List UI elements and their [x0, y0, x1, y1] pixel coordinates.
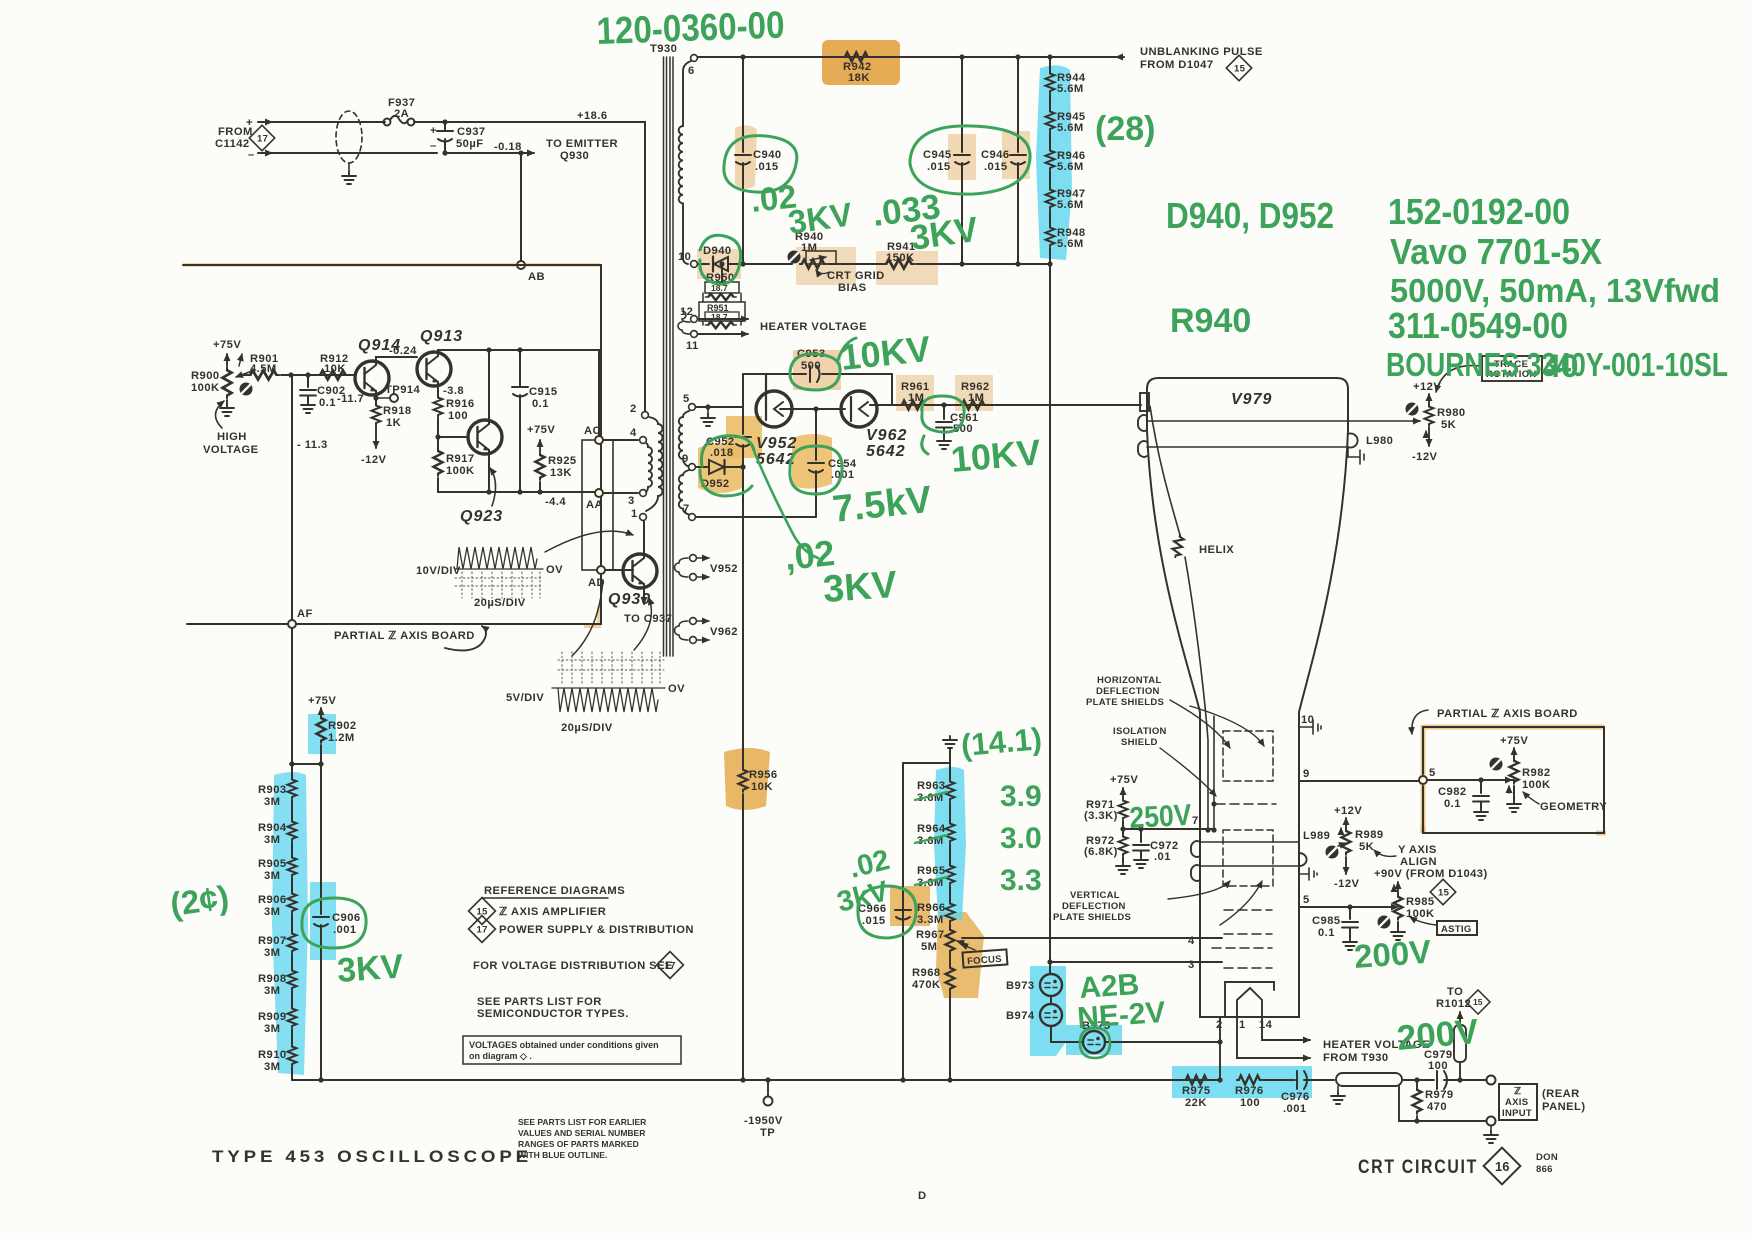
wire AF down to divider	[291, 628, 293, 764]
svg-text:200V: 200V	[1395, 1012, 1480, 1058]
svg-text:5.6M: 5.6M	[1057, 238, 1084, 250]
wire V962 plate to CRT	[870, 404, 894, 406]
svg-text:5.6M: 5.6M	[1057, 161, 1084, 173]
wire Q923 emitter	[488, 450, 490, 492]
wire Q930 emitter arrow TO C937	[643, 585, 645, 604]
ref diamond 17 power supply	[469, 916, 496, 943]
svg-text:TO C937: TO C937	[624, 613, 672, 625]
capacitor C906	[313, 917, 329, 927]
node AB	[517, 261, 525, 269]
svg-text:1K: 1K	[386, 417, 401, 429]
svg-text:100K: 100K	[1522, 779, 1551, 791]
svg-text:18.7: 18.7	[711, 312, 728, 322]
resistor R904	[291, 800, 293, 820]
pin 3 wire	[1050, 961, 1222, 963]
wire Q923 collector	[488, 350, 490, 424]
svg-text:FOR VOLTAGE DISTRIBUTION SEE: FOR VOLTAGE DISTRIBUTION SEE	[473, 960, 673, 972]
svg-text:R985: R985	[1406, 896, 1435, 908]
inner funnel line with helix	[1150, 406, 1180, 535]
orange highlight R942	[822, 40, 900, 85]
svg-text:CRT CIRCUIT: CRT CIRCUIT	[1358, 1157, 1478, 1178]
dashed rows below	[1212, 910, 1272, 968]
resistor R975	[1184, 1076, 1209, 1085]
cyan highlight R902	[308, 714, 336, 754]
svg-text:0.1: 0.1	[1318, 927, 1335, 939]
svg-text:4: 4	[630, 427, 637, 439]
pin 4	[640, 437, 647, 444]
svg-text:Vavo 7701-5X: Vavo 7701-5X	[1390, 231, 1602, 272]
resistor R942	[843, 53, 870, 62]
unblanking bus	[698, 56, 1122, 58]
svg-text:.015: .015	[984, 161, 1008, 173]
svg-text:+18.6: +18.6	[577, 110, 608, 122]
wire to Q923 base	[438, 418, 468, 437]
svg-text:+75V: +75V	[1110, 774, 1138, 786]
bottom -1950V bus	[292, 1079, 1220, 1081]
circle around D940	[700, 235, 741, 284]
resistor R916	[434, 396, 443, 417]
twisted pair shield	[336, 111, 362, 163]
neon B975	[1051, 1026, 1082, 1042]
dashed isolation line	[1216, 803, 1276, 805]
svg-text:.015: .015	[755, 161, 779, 173]
resistor R906	[291, 878, 293, 892]
terminal box AC AA AD	[582, 440, 613, 570]
svg-text:500: 500	[801, 360, 821, 372]
svg-text:(REAR: (REAR	[1542, 1088, 1580, 1100]
circle around B975	[1080, 1028, 1110, 1058]
capacitor C976	[1297, 1071, 1307, 1089]
orange highlight C954	[792, 434, 832, 489]
orange highlight D952	[698, 443, 742, 493]
svg-text:+: +	[430, 125, 437, 137]
svg-text:BIAS: BIAS	[838, 282, 867, 294]
svg-text:3M: 3M	[264, 834, 280, 846]
svg-text:150K: 150K	[886, 252, 915, 264]
svg-text:RANGES OF PARTS MARKED: RANGES OF PARTS MARKED	[518, 1139, 639, 1149]
resistor R964	[949, 802, 951, 822]
wire pin 7	[1123, 828, 1214, 830]
fuse F937	[384, 119, 391, 126]
svg-text:5K: 5K	[1441, 419, 1456, 431]
pin 6	[691, 55, 698, 62]
node AD	[597, 566, 605, 574]
svg-text:ℤ: ℤ	[1514, 1086, 1522, 1097]
wire +18.6 to transformer pin 2	[414, 122, 645, 411]
orange highlight R962	[955, 375, 993, 411]
svg-text:V952: V952	[710, 563, 738, 575]
orange highlight D940 area	[697, 249, 741, 279]
svg-text:18K: 18K	[848, 72, 870, 84]
Z axis input box	[1499, 1084, 1537, 1120]
svg-text:R976: R976	[1235, 1085, 1264, 1097]
svg-text:17: 17	[477, 925, 488, 936]
capacitor C954	[808, 463, 824, 473]
svg-text:R903: R903	[258, 784, 287, 796]
circle around C966	[858, 886, 916, 938]
svg-text:SEMICONDUCTOR TYPES.: SEMICONDUCTOR TYPES.	[477, 1008, 629, 1020]
svg-text:R940: R940	[1170, 302, 1251, 340]
svg-text:200V: 200V	[1353, 933, 1432, 975]
orange highlight C953	[793, 350, 841, 390]
svg-text:3: 3	[1188, 959, 1195, 971]
svg-text:(6.8K): (6.8K)	[1084, 846, 1118, 858]
svg-text:470K: 470K	[912, 979, 941, 991]
box right edge	[891, 374, 893, 405]
svg-text:10: 10	[678, 251, 691, 263]
orange highlight C940 strip	[735, 125, 757, 188]
svg-text:.015: .015	[862, 915, 886, 927]
svg-text:VOLTAGE: VOLTAGE	[203, 444, 259, 456]
svg-text:HORIZONTAL: HORIZONTAL	[1097, 675, 1162, 686]
svg-text:R965: R965	[917, 865, 946, 877]
svg-text:SEE PARTS LIST FOR EARLIER: SEE PARTS LIST FOR EARLIER	[518, 1117, 646, 1127]
svg-text:R910: R910	[258, 1049, 287, 1061]
wire -4.4 bus	[438, 491, 595, 493]
svg-text:+75V: +75V	[308, 695, 336, 707]
svg-text:4: 4	[1188, 935, 1195, 947]
svg-text:C946: C946	[981, 149, 1010, 161]
svg-text:2A: 2A	[394, 108, 409, 120]
svg-text:.015: .015	[927, 161, 951, 173]
pin 2	[642, 412, 649, 419]
partial z axis board outline	[1423, 727, 1604, 833]
svg-text:-12V: -12V	[361, 454, 387, 466]
svg-text:-12V: -12V	[1412, 451, 1438, 463]
circle around C954	[790, 446, 842, 494]
deflection plate lower with L980	[1138, 441, 1147, 457]
capacitor C966	[895, 910, 911, 920]
svg-text:.001: .001	[1283, 1103, 1307, 1115]
svg-text:ALIGN: ALIGN	[1400, 856, 1437, 868]
svg-text:5M: 5M	[921, 941, 937, 953]
arrow -12V	[375, 426, 377, 448]
svg-text:DON: DON	[1536, 1152, 1558, 1163]
svg-text:3M: 3M	[264, 870, 280, 882]
svg-text:FROM D1047: FROM D1047	[1140, 59, 1214, 71]
svg-text:15: 15	[1234, 64, 1246, 75]
potentiometer R900	[223, 368, 232, 398]
svg-text:Q930: Q930	[560, 150, 589, 162]
diode D940	[712, 257, 714, 272]
svg-text:R900: R900	[191, 370, 220, 382]
resistor R907	[291, 914, 293, 932]
capacitor C952	[735, 437, 751, 447]
svg-text:866: 866	[1536, 1164, 1553, 1175]
svg-text:V979: V979	[1231, 391, 1272, 408]
callout arc waveform to pin 1	[545, 531, 633, 552]
C906 line down	[320, 764, 322, 1080]
svg-text:250V: 250V	[1129, 799, 1193, 835]
svg-text:TO: TO	[1447, 986, 1463, 998]
orange highlight R967 R968 FOCUS	[936, 912, 984, 998]
svg-text:POWER SUPPLY & DISTRIBUTION: POWER SUPPLY & DISTRIBUTION	[499, 924, 694, 936]
svg-text:HIGH: HIGH	[217, 431, 247, 443]
svg-text:R909: R909	[258, 1011, 287, 1023]
svg-text:ℤ AXIS AMPLIFIER: ℤ AXIS AMPLIFIER	[499, 906, 606, 918]
svg-text:5.6M: 5.6M	[1057, 83, 1084, 95]
wire plus input	[258, 121, 385, 123]
svg-text:PARTIAL ℤ AXIS BOARD: PARTIAL ℤ AXIS BOARD	[334, 630, 475, 642]
svg-text:17: 17	[257, 134, 268, 145]
svg-text:3M: 3M	[264, 947, 280, 959]
svg-text:PLATE SHIELDS: PLATE SHIELDS	[1053, 912, 1131, 923]
orange highlight R961	[896, 375, 934, 411]
node AA	[595, 489, 603, 497]
wire AF bus	[187, 570, 601, 624]
svg-text:+12V: +12V	[1334, 805, 1362, 817]
svg-text:R956: R956	[749, 769, 778, 781]
ground shield	[348, 163, 350, 172]
pin 10	[691, 261, 698, 268]
resistor R902	[317, 716, 326, 743]
node AF	[288, 620, 296, 628]
wire C940 vertical	[740, 54, 745, 59]
trace rotation box	[1482, 356, 1542, 381]
HV secondary winding 6-10	[679, 61, 691, 264]
svg-text:5000V, 50mA, 13Vfwd: 5000V, 50mA, 13Vfwd	[1390, 272, 1720, 309]
svg-text:5.6M: 5.6M	[1057, 122, 1084, 134]
capacitor C902	[307, 375, 309, 387]
svg-text:(14.1): (14.1)	[960, 721, 1044, 763]
svg-text:(3.3K): (3.3K)	[1084, 810, 1118, 822]
svg-text:10: 10	[1301, 714, 1314, 726]
wire -11.3 vertical	[291, 375, 293, 620]
resistor R963	[949, 763, 951, 780]
svg-text:+75V: +75V	[213, 339, 241, 351]
wire V952 cathode down C954	[815, 409, 817, 517]
svg-text:C982: C982	[1438, 786, 1467, 798]
svg-text:16: 16	[1495, 1159, 1509, 1174]
capacitor C945	[954, 155, 970, 165]
svg-text:1M: 1M	[908, 392, 924, 404]
svg-text:.018: .018	[710, 447, 734, 459]
svg-text:Y AXIS: Y AXIS	[1398, 844, 1437, 856]
svg-text:-11.7: -11.7	[337, 393, 364, 405]
wire between tubes	[780, 408, 845, 410]
svg-text:20µS/DIV: 20µS/DIV	[561, 722, 613, 734]
pin 1	[640, 514, 647, 521]
svg-text:CRT GRID: CRT GRID	[827, 270, 885, 282]
resistor R968	[949, 954, 951, 966]
potentiometer R985 astig	[1397, 882, 1399, 895]
capacitor C985	[1349, 907, 1351, 919]
wire Q914 emitter	[375, 391, 377, 404]
svg-text:R989: R989	[1355, 829, 1384, 841]
svg-text:INPUT: INPUT	[1502, 1108, 1532, 1119]
svg-text:+75V: +75V	[527, 424, 555, 436]
svg-text:R916: R916	[446, 398, 475, 410]
svg-text:7: 7	[1192, 815, 1199, 827]
resistor R956	[739, 768, 748, 792]
svg-text:TYPE 453 OSCILLOSCOPE: TYPE 453 OSCILLOSCOPE	[212, 1147, 532, 1166]
primary winding 2-1	[646, 417, 663, 511]
svg-text:5.6M: 5.6M	[1057, 199, 1084, 211]
svg-text:L980: L980	[1366, 435, 1393, 447]
svg-text:VALUES AND SERIAL NUMBER: VALUES AND SERIAL NUMBER	[518, 1128, 645, 1138]
svg-text:100: 100	[1240, 1097, 1260, 1109]
svg-text:PLATE SHIELDS: PLATE SHIELDS	[1086, 697, 1164, 708]
capacitor C915	[517, 347, 522, 352]
transistor Q930	[623, 554, 657, 588]
svg-text:AB: AB	[528, 271, 545, 283]
cyan highlight R903-R910 chain	[272, 772, 308, 1075]
pin 11	[691, 331, 698, 338]
svg-text:3KV: 3KV	[336, 947, 405, 990]
svg-text:-1950V: -1950V	[744, 1115, 783, 1127]
svg-text:R905: R905	[258, 858, 287, 870]
svg-text:HELIX: HELIX	[1199, 544, 1234, 556]
resistor R905	[291, 842, 293, 856]
secondary winding 5-9-7	[679, 411, 689, 467]
svg-text:GEOMETRY: GEOMETRY	[1540, 801, 1607, 813]
resistor R976	[1217, 1077, 1222, 1082]
svg-text:.01: .01	[1154, 851, 1171, 863]
ground stub L989	[1299, 866, 1317, 880]
svg-text:C1142: C1142	[215, 138, 250, 150]
astig box	[1437, 921, 1477, 935]
svg-text:HEATER VOLTAGE: HEATER VOLTAGE	[760, 321, 867, 333]
svg-text:R1012: R1012	[1436, 998, 1471, 1010]
CRT grid bias wire	[698, 263, 709, 265]
svg-text:C915: C915	[529, 386, 558, 398]
svg-text:SEE PARTS LIST FOR: SEE PARTS LIST FOR	[477, 996, 602, 1008]
svg-text:R980: R980	[1437, 407, 1466, 419]
cyan highlight B973 B974	[1030, 966, 1066, 1056]
inner coating line	[1213, 716, 1215, 830]
deflection plate upper	[1138, 415, 1147, 431]
wire C945 vertical	[959, 54, 964, 59]
orange tint AB wire	[183, 263, 600, 267]
pin 5	[689, 404, 696, 411]
focus box	[962, 949, 1007, 967]
capacitor C946	[1010, 155, 1026, 165]
svg-text:15: 15	[1473, 997, 1483, 1007]
svg-text:C985: C985	[1312, 915, 1341, 927]
svg-text:OV: OV	[668, 683, 685, 695]
cyan highlight R975 R976 C976	[1172, 1066, 1312, 1098]
wire C946 vertical	[1015, 54, 1020, 59]
svg-text:B973: B973	[1006, 980, 1035, 992]
long vertical from R948 chain down	[1049, 264, 1051, 962]
orange highlight R956	[724, 748, 770, 810]
pin 10 ground	[1299, 720, 1321, 734]
neon B974	[1050, 996, 1052, 1004]
test point TP914	[376, 397, 390, 399]
svg-text:Q923: Q923	[460, 508, 503, 525]
resistor R948	[1046, 226, 1055, 247]
resistor R918	[372, 404, 381, 425]
ground above R963 chain	[943, 736, 957, 748]
wire down to node AB	[520, 153, 522, 260]
CRT V979 envelope	[1147, 378, 1348, 1017]
svg-text:VOLTAGES obtained under con: VOLTAGES obtained under conditions given	[469, 1040, 659, 1050]
svg-text:3: 3	[628, 495, 635, 507]
svg-text:R975: R975	[1182, 1085, 1211, 1097]
ground R900	[226, 400, 228, 404]
coax to rear panel	[1336, 1073, 1402, 1086]
primary winding 4-3	[646, 443, 652, 492]
svg-text:B974: B974	[1006, 1010, 1035, 1022]
wire pin5 to box with ground	[696, 406, 743, 408]
resistor R951 box	[699, 302, 745, 321]
circle around C961	[922, 396, 964, 432]
svg-text:0.1: 0.1	[532, 398, 549, 410]
pin 7	[689, 514, 696, 521]
svg-text:.001: .001	[333, 924, 357, 936]
svg-text:3.3M: 3.3M	[917, 914, 944, 926]
waveform 10V/DIV	[455, 547, 543, 598]
svg-text:UNBLANKING PULSE: UNBLANKING PULSE	[1140, 46, 1263, 58]
ground stub L980	[1348, 447, 1364, 464]
svg-text:PARTIAL ℤ AXIS BOARD: PARTIAL ℤ AXIS BOARD	[1437, 708, 1578, 720]
svg-text:(28): (28)	[1095, 110, 1155, 148]
resistor R909	[291, 991, 293, 1007]
orange tint AF corner	[584, 606, 599, 626]
diode D952	[696, 466, 709, 468]
svg-text:R966: R966	[917, 902, 946, 914]
svg-text:on diagram ◇ .: on diagram ◇ .	[469, 1051, 532, 1061]
svg-text:1M: 1M	[801, 242, 817, 254]
svg-text:311-0549-00: 311-0549-00	[1388, 305, 1568, 346]
heater voltage wires	[698, 318, 748, 320]
svg-text:R908: R908	[258, 973, 287, 985]
svg-text:R967: R967	[916, 929, 945, 941]
cyan highlight R944-R948 chain	[1036, 65, 1072, 260]
svg-text:C945: C945	[923, 149, 952, 161]
svg-text:100K: 100K	[1406, 908, 1435, 920]
svg-text:+90V (FROM D1043): +90V (FROM D1043)	[1374, 868, 1488, 880]
svg-text:13K: 13K	[550, 467, 572, 479]
capacitor C937	[442, 119, 447, 124]
svg-text:5: 5	[1303, 894, 1310, 906]
circle around C953 with tail	[790, 354, 840, 390]
pin 3	[640, 490, 647, 497]
svg-text:40: 40	[1543, 348, 1579, 384]
svg-text:AXIS: AXIS	[1505, 1097, 1528, 1108]
svg-text:L989: L989	[1303, 830, 1330, 842]
svg-text:5K: 5K	[1359, 841, 1374, 853]
svg-text:+75V: +75V	[1500, 735, 1528, 747]
resistor R962	[960, 401, 986, 410]
pin 2 wire down to bus	[1219, 1017, 1221, 1080]
svg-text:C940: C940	[753, 149, 782, 161]
svg-text:100K: 100K	[446, 465, 475, 477]
svg-text:C906: C906	[332, 912, 361, 924]
wire Q930 base from AD	[605, 569, 633, 571]
svg-text:R968: R968	[912, 967, 941, 979]
voltages box	[463, 1036, 681, 1064]
orange highlight C946	[1002, 131, 1030, 179]
orange highlight C966	[890, 886, 930, 926]
box bottom wire	[696, 516, 816, 518]
Z axis input connector top	[1487, 1076, 1496, 1085]
svg-text:V952: V952	[756, 435, 797, 452]
wire AA to pin 3	[603, 492, 638, 494]
svg-text:C937: C937	[457, 126, 486, 138]
svg-text:5: 5	[683, 393, 690, 405]
svg-text:470: 470	[1427, 1101, 1447, 1113]
svg-text:1M: 1M	[968, 392, 984, 404]
svg-text:120-0360-00: 120-0360-00	[596, 4, 785, 53]
svg-text:R902: R902	[328, 720, 357, 732]
svg-text:-3.8: -3.8	[443, 385, 464, 397]
cyan highlight C906	[310, 882, 336, 960]
resistor R917	[434, 449, 443, 476]
svg-text:-4.4: -4.4	[545, 496, 566, 508]
svg-text:R963: R963	[917, 780, 946, 792]
orange highlight R940 pot area	[796, 247, 856, 285]
